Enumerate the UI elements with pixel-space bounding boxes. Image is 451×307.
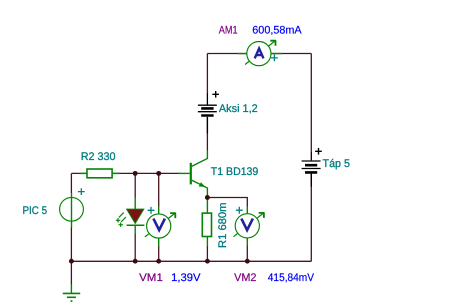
svg-text:T1 BD139: T1 BD139 [211, 166, 258, 178]
voltmeter VM1 [145, 206, 176, 246]
svg-text:Aksi 1,2: Aksi 1,2 [219, 103, 258, 115]
svg-text:600,58mA: 600,58mA [252, 25, 302, 37]
ammeter AM1 [238, 40, 282, 65]
wire emitter node to VM2 [207, 198, 247, 207]
svg-text:R1 680m: R1 680m [217, 203, 229, 249]
node bottom rail / PIC-ground junction [69, 259, 74, 264]
wire top-left corner above Aksi battery [206, 54, 208, 94]
node bottom rail / LED junction [133, 259, 138, 264]
wire PIC source to bottom rail [70, 228, 72, 262]
svg-text:AM1: AM1 [219, 25, 238, 37]
wire LED column lower [134, 234, 136, 262]
resistor R1 [202, 200, 211, 247]
node emitter junction [205, 195, 210, 200]
battery Tap 5 [302, 148, 322, 187]
svg-text:415,84mV: 415,84mV [268, 272, 315, 284]
LED [116, 198, 145, 234]
ground [63, 284, 80, 301]
resistor R2 [79, 169, 119, 178]
wire VM1 column upper [158, 173, 160, 206]
svg-text:1,39V: 1,39V [171, 272, 201, 284]
node bottom rail / R1 junction [205, 259, 210, 264]
node bottom rail / VM2 junction [245, 259, 250, 264]
node bottom rail / VM1 junction [156, 259, 161, 264]
wire ground drop [70, 261, 72, 284]
wire Tap battery bottom to bottom rail [310, 174, 312, 262]
wire bottom rail [71, 260, 311, 262]
wire left corner to PIC source [70, 173, 72, 193]
wire VM2 bottom [246, 246, 248, 262]
wire right vertical down to Tap battery [310, 54, 312, 153]
wire VM1 column lower [158, 246, 160, 261]
node top rail / VM1 junction [156, 171, 161, 176]
svg-text:VM2: VM2 [234, 272, 256, 284]
wire R1 bottom [206, 246, 208, 261]
voltage source PIC 5 [60, 188, 85, 227]
svg-text:Táp 5: Táp 5 [323, 158, 351, 170]
wire LED column upper [134, 173, 136, 198]
svg-text:PIC 5: PIC 5 [23, 205, 48, 217]
node top rail / LED junction [133, 171, 138, 176]
voltmeter VM2 [234, 206, 265, 246]
transistor T1 BD139 [178, 150, 207, 196]
wire Aksi battery to collector [206, 117, 208, 151]
wire left top horizontal (base rail) [71, 172, 180, 174]
battery Aksi 1,2 [198, 91, 219, 134]
svg-text:R2 330: R2 330 [81, 151, 116, 163]
wire top horizontal through ammeter [207, 53, 311, 55]
svg-text:VM1: VM1 [139, 272, 163, 284]
